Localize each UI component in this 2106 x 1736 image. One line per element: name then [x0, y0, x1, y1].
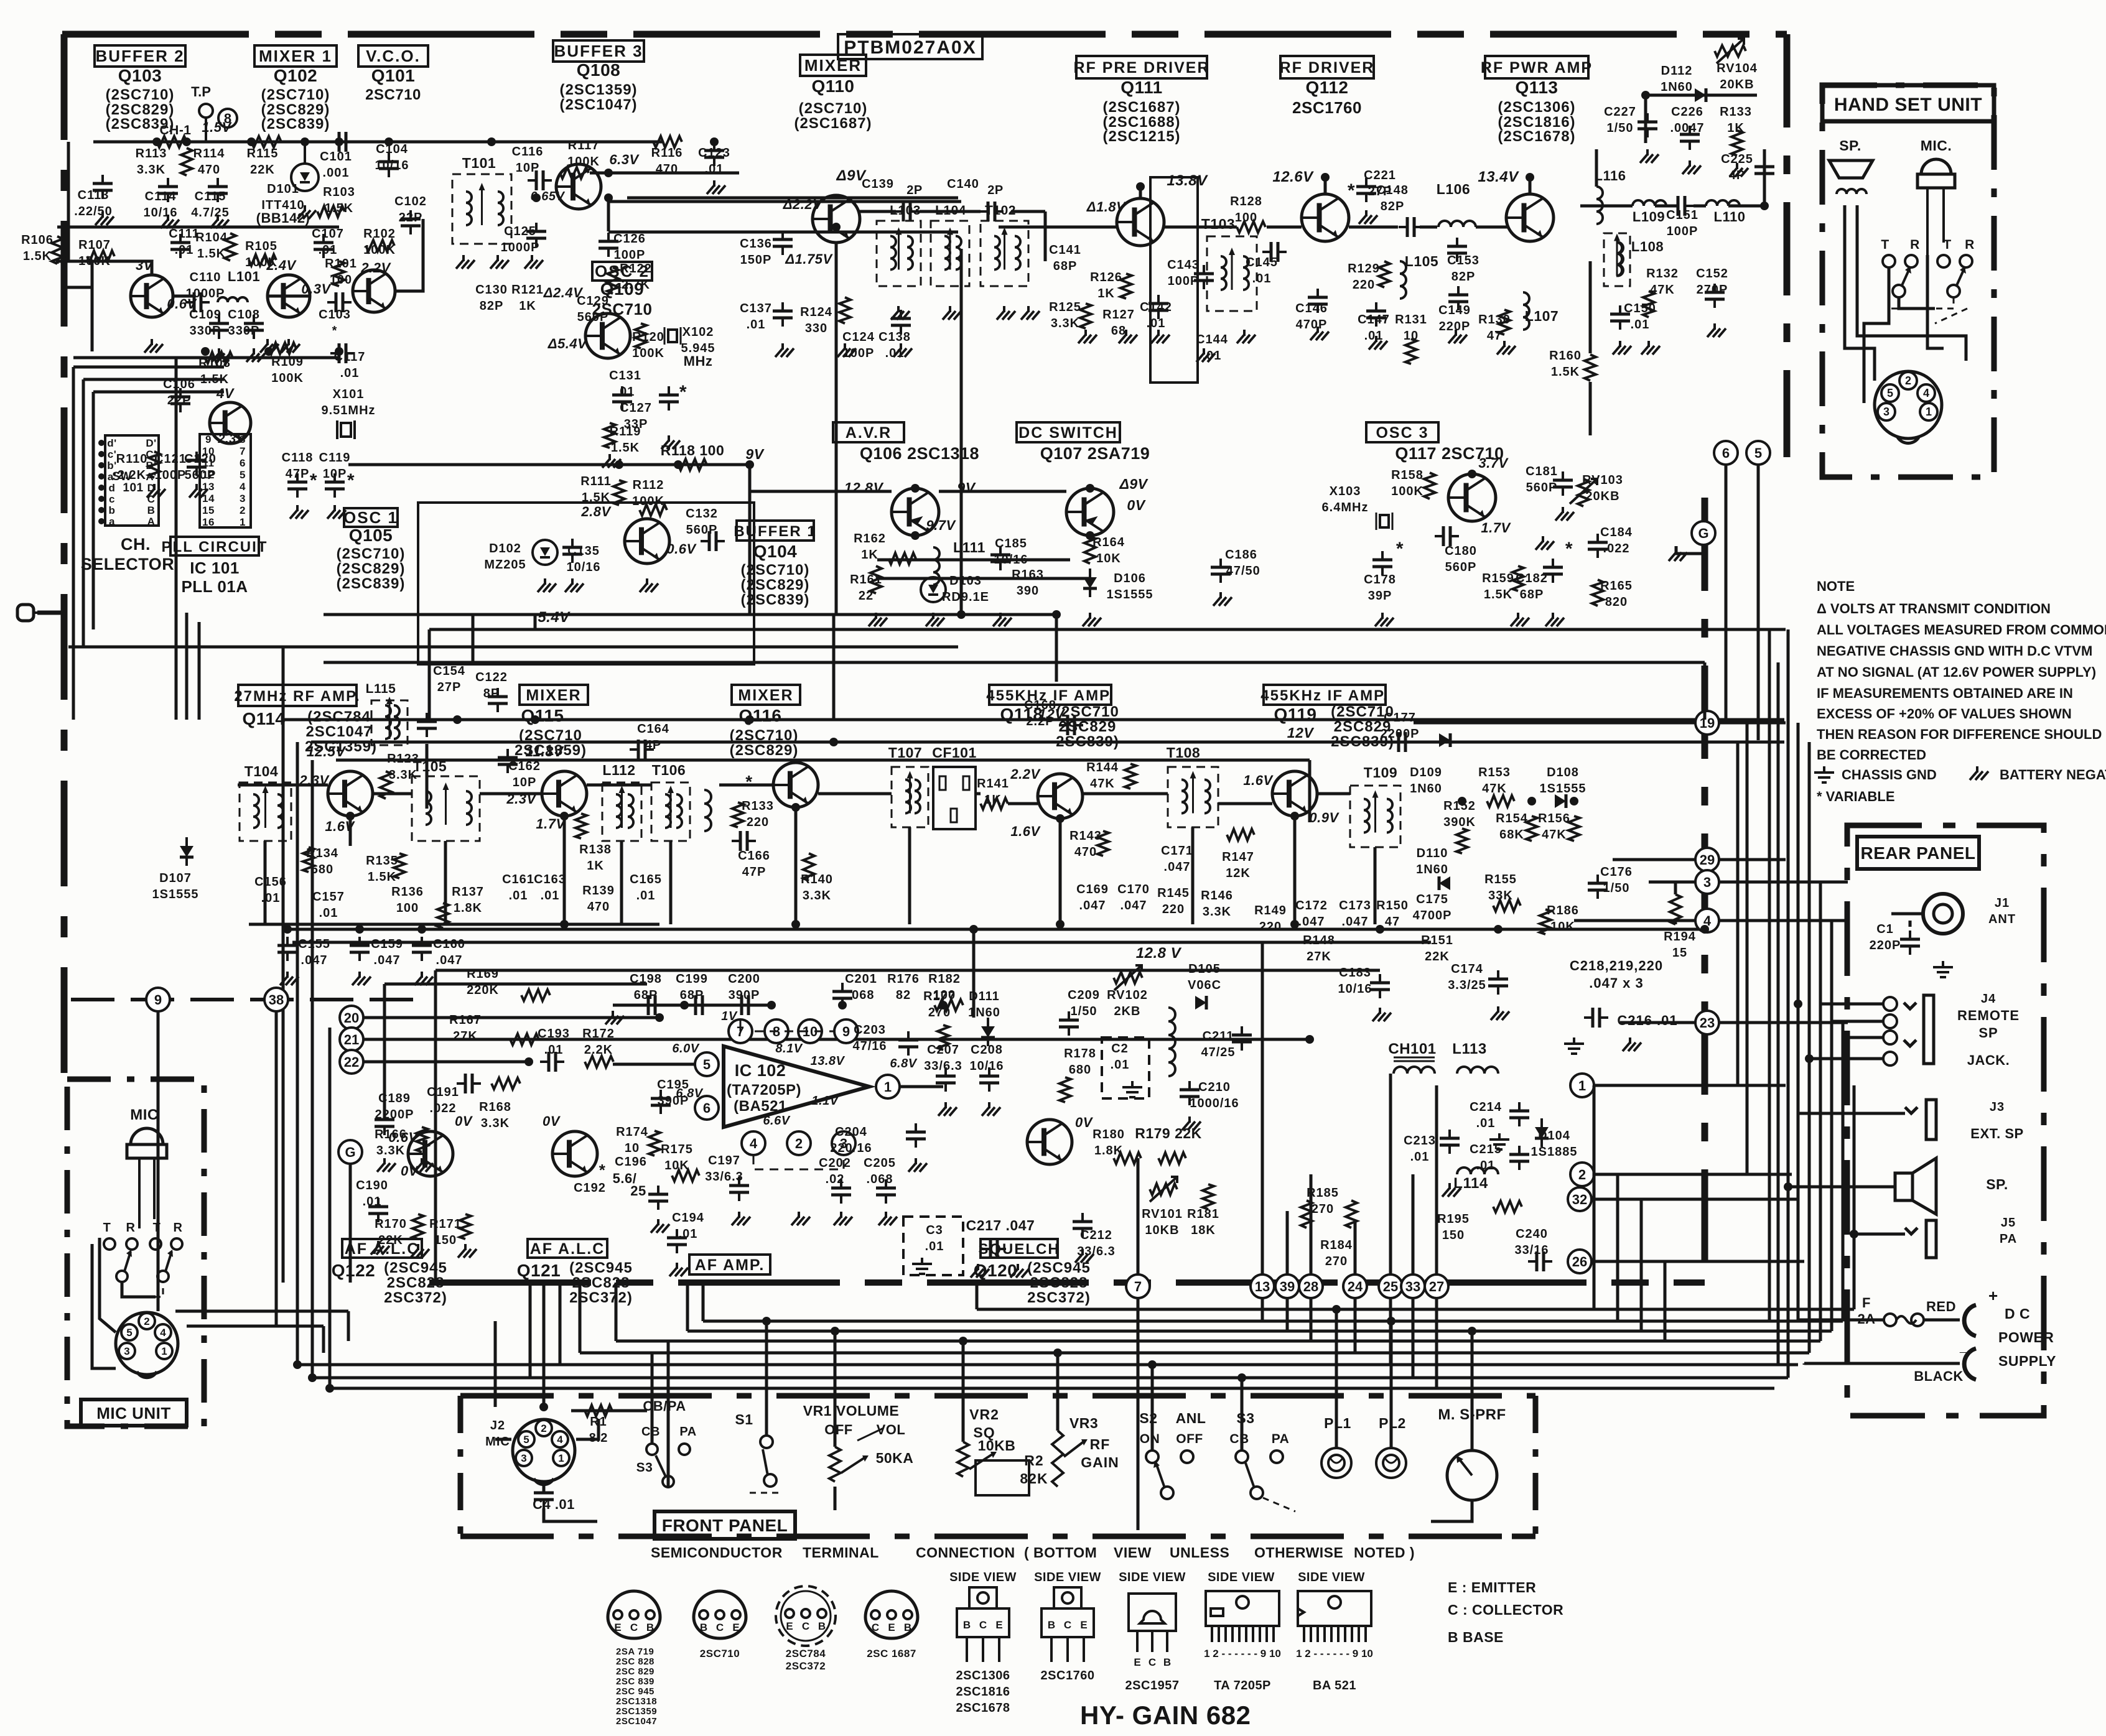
svg-text:39P: 39P [1368, 589, 1392, 603]
bus drop wire [529, 1283, 532, 1378]
wire pin4 row [1719, 919, 1848, 922]
label C185 [994, 537, 1028, 567]
label (2SC839) [261, 116, 330, 132]
capacitor C150 device [1610, 305, 1630, 330]
svg-text:3.3K: 3.3K [1203, 905, 1231, 919]
label C214 [1470, 1100, 1502, 1130]
resistor R103 [317, 206, 345, 217]
buffer3 collector rail [590, 172, 739, 175]
handset pin 2 [1899, 372, 1917, 389]
svg-text:R151: R151 [1421, 934, 1453, 947]
inductor L105 device [1400, 261, 1406, 299]
label (2SC710) [337, 545, 406, 562]
label RF GAIN [1081, 1436, 1119, 1470]
package 2SC1687 bottom view [865, 1591, 918, 1638]
svg-text:C161: C161 [502, 873, 534, 886]
meter lead [1431, 1500, 1472, 1521]
capacitor C154 device [417, 713, 437, 737]
capacitor C125 device [526, 223, 546, 247]
svg-text:47/16: 47/16 [852, 1039, 887, 1053]
svg-text:R111: R111 [580, 475, 612, 488]
ground [260, 339, 279, 353]
svg-text:R112: R112 [633, 478, 664, 492]
resistor R114 [181, 148, 192, 175]
ground [1182, 1116, 1201, 1130]
svg-text:R138: R138 [579, 843, 612, 856]
svg-text:G: G [1698, 526, 1708, 541]
svg-text:.01: .01 [319, 906, 338, 920]
bus drop wire [615, 1283, 618, 1341]
svg-text:Q114: Q114 [243, 709, 286, 728]
capacitor C101 [330, 132, 355, 152]
svg-text:D101: D101 [267, 182, 299, 196]
pin drop wire [1389, 1298, 1392, 1365]
label X102 [681, 325, 715, 355]
svg-text:R118 100: R118 100 [661, 442, 724, 458]
label 2SC829 [1334, 718, 1392, 735]
svg-text:4: 4 [557, 1434, 563, 1446]
label C180 560P [1445, 544, 1477, 574]
pin 3 [1695, 870, 1719, 894]
wire Q115 out [587, 784, 651, 787]
label C194 [672, 1211, 704, 1241]
svg-text:OFF: OFF [824, 1422, 853, 1437]
capacitor C118 device [287, 473, 307, 498]
resistor R140 device [803, 853, 814, 881]
label C123 [698, 146, 730, 176]
svg-text:Q110: Q110 [812, 77, 855, 96]
label C164 4P [637, 722, 669, 752]
package 2SC1306 side view [957, 1587, 1009, 1662]
svg-text:R184: R184 [1320, 1238, 1353, 1252]
label C199 68P [676, 972, 708, 1002]
svg-text:C171: C171 [1161, 844, 1193, 858]
svg-text:R105: R105 [245, 239, 277, 253]
svg-text:R167: R167 [449, 1013, 482, 1027]
bus wire 12.8V rail [283, 928, 1705, 931]
speaker SP symbol [1895, 1158, 1936, 1214]
switch S3a contacts [646, 1444, 690, 1487]
RV103 arrow [1570, 479, 1597, 504]
svg-text:(2SC1359): (2SC1359) [559, 81, 637, 98]
svg-text:33/6.3: 33/6.3 [705, 1170, 743, 1184]
label R2 82K [1020, 1452, 1048, 1487]
wire if ground rail [249, 923, 659, 926]
transformer T109 body [1350, 786, 1400, 847]
mic connector [116, 1312, 178, 1375]
wire row2 [57, 226, 339, 229]
svg-text:0V: 0V [455, 1113, 473, 1129]
control drop wire [1151, 1365, 1154, 1451]
resistor R144 device [1125, 764, 1136, 789]
svg-text:L115: L115 [366, 682, 396, 696]
svg-text:HAND SET UNIT: HAND SET UNIT [1834, 95, 1982, 115]
ground [377, 1158, 396, 1172]
package pin [818, 1609, 826, 1632]
resistor R177 device [938, 1025, 949, 1050]
audio bus wire a [436, 969, 1380, 972]
svg-text:.01: .01 [544, 1043, 564, 1057]
J2 connector [513, 1419, 575, 1482]
wire pin1 row [1594, 1084, 1786, 1087]
capacitor C149 device [1448, 286, 1468, 310]
svg-text:R117: R117 [568, 139, 600, 152]
label R159 [1482, 572, 1514, 601]
inductor L116 device [1596, 187, 1603, 224]
ground [1078, 330, 1097, 343]
label C160 [433, 937, 465, 967]
capacitor C215 device [1509, 1146, 1529, 1170]
resistor R133b device [732, 802, 743, 827]
ground [640, 578, 658, 592]
selector contact dot [98, 496, 105, 502]
ground [456, 255, 475, 269]
wire Q116 out [818, 792, 892, 796]
svg-text:R179 22K: R179 22K [1135, 1125, 1202, 1141]
interconnect wire [428, 629, 431, 720]
capacitor C104 [379, 153, 399, 177]
svg-text:R176: R176 [887, 972, 920, 986]
svg-text:2SC1318: 2SC1318 [616, 1696, 657, 1707]
svg-text:2SC1047: 2SC1047 [616, 1716, 657, 1727]
capacitor C123 device [704, 142, 724, 166]
label C144 [1196, 333, 1228, 363]
svg-text:2SC 839: 2SC 839 [616, 1676, 655, 1687]
resistor R107 [87, 251, 114, 262]
svg-text:HY- GAIN 682: HY- GAIN 682 [1080, 1701, 1251, 1730]
bus drop wire [543, 1283, 546, 1407]
svg-text:L112: L112 [602, 762, 635, 778]
svg-text:6: 6 [703, 1100, 711, 1116]
switch contact [1937, 255, 1950, 267]
svg-text:CB: CB [1229, 1432, 1249, 1446]
svg-text:.01: .01 [1410, 1150, 1430, 1164]
svg-text:9: 9 [205, 434, 212, 445]
svg-text:5: 5 [703, 1057, 711, 1072]
svg-text:AT NO SIGNAL (AT 12.6V POWER S: AT NO SIGNAL (AT 12.6V POWER SUPPLY) [1817, 664, 2096, 680]
svg-text:9V: 9V [745, 446, 764, 462]
svg-text:R160: R160 [1549, 349, 1582, 363]
block label OSC 2 [592, 262, 652, 281]
svg-text:47: 47 [1385, 915, 1400, 929]
mixer Q110 down wire [835, 244, 838, 615]
Q111 collector wire [1139, 187, 1142, 198]
svg-text:X103: X103 [1330, 485, 1361, 498]
capacitor C142 device [1149, 295, 1168, 319]
label (2SC710) [261, 86, 330, 103]
wire L106 to Q113 [1476, 226, 1508, 229]
resistor R112 device [640, 504, 667, 516]
ground [908, 1158, 927, 1172]
svg-text:(2SC1215): (2SC1215) [1102, 128, 1180, 145]
svg-text:R102: R102 [363, 227, 396, 241]
svg-text:C170: C170 [1117, 883, 1150, 896]
switch contact [1883, 255, 1895, 267]
rear vertical a [1797, 1113, 1800, 1320]
ground [1511, 613, 1529, 626]
svg-text:PTBM027A0X: PTBM027A0X [844, 37, 976, 58]
bus drop wire [559, 1283, 562, 1365]
IC pins dashed link [755, 1031, 834, 1033]
svg-text:2SC372): 2SC372) [384, 1289, 447, 1306]
svg-text:1S1555: 1S1555 [152, 888, 199, 901]
wire pin32 row [1591, 1198, 1798, 1201]
svg-text:.068: .068 [867, 1172, 893, 1186]
label (2SC829) [261, 101, 330, 118]
svg-text:R174: R174 [616, 1125, 648, 1139]
RV101 device [1150, 1184, 1177, 1195]
svg-text:1.5K: 1.5K [1551, 365, 1580, 379]
label D103 RD9.1E [942, 574, 989, 604]
pin drop wire [1412, 1298, 1415, 1378]
resistor R118 device [678, 459, 707, 470]
jack J5 body [1905, 1220, 1936, 1258]
IC102 pin 6 [695, 1096, 719, 1120]
svg-text:2.2V: 2.2V [1010, 766, 1041, 782]
bus drop wire [686, 1283, 689, 1331]
long bus wire 1 [283, 718, 1784, 722]
svg-text:25: 25 [630, 1183, 646, 1199]
svg-text:(2SC1047): (2SC1047) [559, 96, 637, 113]
mic switch contact [150, 1238, 161, 1250]
ground [891, 306, 910, 320]
transistor Q122 device [408, 1131, 453, 1176]
package BA521 side view [1296, 1591, 1373, 1659]
svg-text:ON: ON [1140, 1432, 1160, 1446]
rear feed wire [1830, 921, 1833, 1331]
resistor R175 device [672, 1170, 699, 1181]
svg-text:J3: J3 [1990, 1100, 2005, 1114]
svg-text:.01: .01 [541, 889, 560, 903]
J2 pin 2 [536, 1420, 552, 1436]
label R129 220 [1348, 262, 1380, 292]
label J3 [1990, 1100, 2005, 1114]
label C166 47P [738, 849, 770, 879]
transformer T105 body [412, 776, 480, 841]
ground [605, 1011, 624, 1024]
label (2SC710 [519, 727, 582, 744]
svg-text:* VARIABLE: * VARIABLE [1817, 789, 1895, 804]
capacitor C160 device [412, 937, 432, 961]
svg-text:Δ1.75V: Δ1.75V [785, 251, 833, 267]
wire pin5 down [1757, 465, 1760, 740]
control drop wire [1390, 1321, 1393, 1448]
bundle top wire 2 [83, 378, 224, 381]
svg-text:5: 5 [1887, 387, 1893, 399]
svg-text:C193: C193 [538, 1027, 570, 1041]
J2 connector key [534, 1478, 554, 1485]
svg-text:Q105: Q105 [349, 526, 393, 545]
svg-text:5: 5 [126, 1327, 132, 1339]
svg-text:C191: C191 [427, 1085, 459, 1099]
mic switch arm 1 [116, 1250, 132, 1282]
label R158 100K [1391, 468, 1423, 498]
svg-text:C159: C159 [371, 937, 403, 951]
svg-text:BUFFER 2: BUFFER 2 [95, 47, 184, 65]
svg-text:100K: 100K [632, 346, 664, 360]
svg-text:1.5K: 1.5K [197, 247, 226, 261]
svg-text:4700P: 4700P [1413, 909, 1452, 922]
svg-text:E: E [995, 1619, 1002, 1631]
MIC UNIT box [67, 1079, 204, 1426]
svg-text:( BOTTOM: ( BOTTOM [1024, 1544, 1097, 1561]
power plus terminal [1964, 1286, 1998, 1336]
crystal X102 [664, 327, 681, 345]
svg-text:CHASSIS GND: CHASSIS GND [1842, 767, 1937, 782]
svg-text:680: 680 [1069, 1063, 1091, 1077]
svg-text:2SC 828: 2SC 828 [616, 1656, 655, 1667]
wire AVR to DC switch [939, 490, 1066, 493]
label R160 [1549, 349, 1582, 379]
svg-text:FRONT PANEL: FRONT PANEL [662, 1516, 788, 1535]
block label SQUELCH [978, 1239, 1060, 1258]
RV104 trimmer arrow [1717, 39, 1744, 63]
wire pin22 right [363, 1061, 529, 1064]
label C103 [319, 308, 351, 338]
package 2SC1957 side view [1129, 1594, 1176, 1668]
svg-text:C163: C163 [534, 873, 566, 886]
CH101 core bars [1394, 1057, 1435, 1061]
ground [1640, 149, 1659, 163]
label J1 ANT [1988, 896, 2016, 926]
svg-text:2SC1359: 2SC1359 [616, 1706, 657, 1717]
pin 27 [1425, 1274, 1448, 1298]
svg-text:SIDE VIEW: SIDE VIEW [949, 1571, 1017, 1584]
svg-text:J2: J2 [490, 1419, 505, 1432]
svg-text:2SC1957: 2SC1957 [1125, 1679, 1180, 1692]
mic to J2 wire c [187, 1325, 324, 1328]
front panel bus wire [977, 1308, 1854, 1311]
svg-text:C198: C198 [630, 972, 662, 986]
svg-text:d': d' [107, 437, 116, 449]
svg-text:Δ9V: Δ9V [1119, 476, 1148, 492]
selector contact dot [98, 473, 105, 480]
capacitor C119 device [325, 473, 345, 498]
chassis gnd c214 [1489, 1133, 1509, 1149]
svg-text:R158: R158 [1391, 468, 1423, 482]
control drop wire [962, 1341, 965, 1442]
label C182 [1516, 572, 1548, 601]
svg-text:5.4V: 5.4V [538, 609, 571, 626]
svg-text:2SC1816: 2SC1816 [956, 1685, 1010, 1699]
osc1 drop [534, 615, 537, 629]
left bundle vertical d [198, 622, 201, 720]
front panel bus wire [616, 1340, 1820, 1343]
svg-text:T: T [1881, 238, 1889, 252]
variable resistor RV104 device [1715, 45, 1746, 57]
long bus wire 2 [311, 741, 1784, 744]
svg-text:3.3K: 3.3K [137, 163, 165, 177]
svg-text:7: 7 [1134, 1279, 1142, 1294]
svg-text:SUPPLY: SUPPLY [1998, 1353, 2056, 1369]
audio left vertical [434, 970, 437, 1283]
label R106 [21, 233, 54, 263]
capacitor C212 device [1073, 1213, 1093, 1237]
VR1 wiper [841, 1455, 869, 1473]
capacitor C168 device [1059, 715, 1083, 735]
switch S2 [1146, 1451, 1193, 1499]
resistor R132 device [1643, 291, 1654, 317]
label C142 [1140, 300, 1172, 330]
label C127 [620, 401, 652, 431]
right bundle wire 3 [1768, 629, 1771, 1320]
label C106 [163, 378, 195, 407]
ground [791, 1212, 810, 1225]
svg-text:R135: R135 [366, 854, 398, 868]
bus wire under rail [292, 941, 1431, 944]
svg-text:R168: R168 [479, 1100, 511, 1114]
svg-text:(2SC945: (2SC945 [569, 1260, 633, 1276]
svg-text:270: 270 [1312, 1202, 1334, 1216]
diode D104 device [1535, 1118, 1549, 1147]
svg-text:R: R [1965, 238, 1975, 252]
rear feed wire [1797, 723, 1800, 1320]
wire to J4 contact 1 [1820, 1003, 1883, 1006]
ground [95, 211, 114, 225]
mic switch arm 2 [157, 1250, 173, 1282]
wire R141 to Q118 [1008, 802, 1038, 805]
label C212 [1077, 1228, 1116, 1258]
svg-text:BATTERY NEGATIVE: BATTERY NEGATIVE [2000, 767, 2106, 782]
svg-text:C118: C118 [282, 451, 314, 465]
label C161 [502, 873, 534, 903]
svg-text:Q109: Q109 [600, 279, 645, 299]
label D104 [1531, 1129, 1578, 1159]
svg-text:101: 101 [123, 481, 143, 494]
svg-text:OSC 3: OSC 3 [1376, 424, 1428, 442]
svg-text:C177: C177 [1384, 711, 1416, 725]
label C145 .01 [1246, 256, 1278, 285]
svg-text:1: 1 [1926, 406, 1932, 418]
IC pins bottom dashed [753, 1156, 844, 1169]
ground [161, 215, 179, 228]
svg-text:C165: C165 [630, 873, 662, 886]
svg-text:R194: R194 [1664, 930, 1696, 944]
capacitor C102 [401, 210, 421, 234]
svg-text:R136: R136 [391, 885, 424, 899]
label C201 .068 [845, 972, 877, 1002]
mic wiring 1 [100, 1238, 116, 1332]
svg-text:20KB: 20KB [1585, 490, 1619, 503]
ground [352, 972, 371, 985]
long bus wire 3 [336, 759, 1310, 762]
svg-text:2.2V: 2.2V [360, 260, 391, 276]
left border of main unit [61, 34, 68, 1079]
svg-text:L113: L113 [1452, 1041, 1486, 1057]
SP coil [1837, 189, 1866, 194]
svg-text:.047 x 3: .047 x 3 [1589, 975, 1644, 991]
svg-text:16: 16 [202, 516, 215, 528]
svg-text:B: B [1048, 1619, 1055, 1631]
svg-text:470: 470 [198, 163, 220, 177]
label C139 [862, 177, 894, 191]
right bundle wire 4 [1777, 662, 1780, 1363]
jack J4 body [1904, 995, 1934, 1064]
resistor R108 [205, 352, 233, 363]
resistor R117 device [560, 167, 589, 179]
label R155 33K [1484, 873, 1517, 903]
label R148 27K [1303, 934, 1335, 963]
label R163 390 [1012, 568, 1044, 598]
label R151 22K [1421, 934, 1453, 963]
svg-text:C: C [630, 1622, 638, 1633]
svg-text:220/16: 220/16 [830, 1141, 872, 1155]
svg-text:CH101: CH101 [1388, 1041, 1436, 1057]
speaker symbol SP [1829, 160, 1873, 178]
label C131 [609, 369, 641, 399]
ground [837, 343, 856, 357]
Q103 collector wire [57, 261, 152, 275]
